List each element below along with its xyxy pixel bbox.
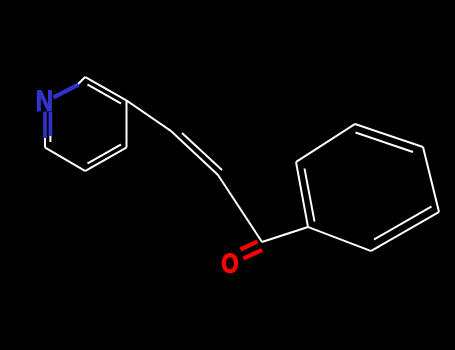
pyridine ring: double bond N=C6 outer line white part xyxy=(44,136,46,148)
chain: C=C double bond second line xyxy=(182,133,222,170)
chain: bond =CH-C(carbonyl) xyxy=(218,175,262,242)
phenyl ring: bond H3-H4 inner line xyxy=(356,133,414,153)
pyridine ring: bond C2=C3 outer line xyxy=(85,77,126,101)
carbonyl: bond C-ipso to phenyl xyxy=(262,227,308,242)
chain: bond C3-CH= xyxy=(127,101,172,132)
pyridine ring: bond C4=C5 outer line xyxy=(85,148,126,172)
chain: C=C double bond main line xyxy=(171,131,218,175)
phenyl ring: bond H1-H2 inner line xyxy=(305,169,315,222)
pyridine ring: double bond N=C6 inner line blue half xyxy=(49,112,53,136)
phenyl ring: bond ipso=ortho (H1-H2) outer line xyxy=(296,162,308,227)
pyridine ring: bond C5-C6 xyxy=(45,148,85,172)
pyridine ring: bond N-C2 blue half near N xyxy=(54,85,79,98)
pyridine ring: bond C4=C5 inner line xyxy=(88,145,122,164)
svg-text:O: O xyxy=(221,250,238,280)
pyridine ring: bond C3-C4 xyxy=(126,101,128,148)
phenyl ring: bond H2-H3 xyxy=(296,124,355,162)
phenyl ring: bond H5-H6 outer line xyxy=(371,212,439,251)
pyridine ring: double bond N=C6 inner line white part xyxy=(49,134,51,142)
pyridine ring: bond N-C2 white part xyxy=(77,77,86,86)
phenyl ring: bond H4-H5 xyxy=(423,147,439,212)
carbonyl: C=O double bond second red line xyxy=(241,242,258,250)
phenyl ring: bond H3-H4 outer line xyxy=(355,124,423,147)
pyridine ring: bond C2=C3 inner line xyxy=(88,85,122,104)
phenyl ring: bond H6-H1 xyxy=(308,227,371,251)
carbonyl: C=O double bond main red line xyxy=(244,250,263,259)
pyridine ring: double bond N=C6 outer line blue half xyxy=(43,112,47,139)
phenyl ring: bond H5-H6 inner line xyxy=(374,207,432,240)
svg-text:N: N xyxy=(36,83,53,117)
